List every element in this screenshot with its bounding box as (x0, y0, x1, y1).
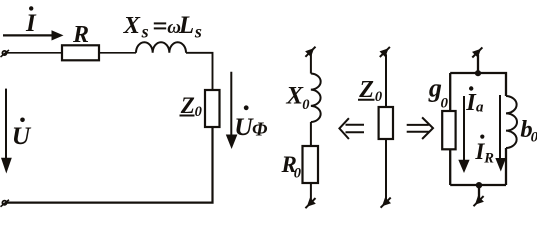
svg-text:0: 0 (531, 130, 537, 146)
svg-text:U: U (12, 121, 32, 150)
svg-text:L: L (178, 12, 194, 39)
svg-text:R: R (72, 22, 89, 48)
svg-text:0: 0 (302, 97, 309, 113)
svg-text:s: s (141, 22, 149, 42)
svg-text:0: 0 (195, 104, 202, 120)
svg-text:Z: Z (358, 77, 374, 103)
svg-text:0: 0 (375, 89, 382, 105)
svg-text:0: 0 (441, 96, 449, 112)
svg-text:I: I (25, 10, 37, 37)
svg-text:s: s (194, 22, 202, 42)
svg-text:Φ: Φ (252, 119, 268, 140)
svg-text:0: 0 (294, 165, 301, 181)
svg-text:Z: Z (180, 93, 195, 118)
svg-text:R: R (483, 150, 494, 166)
svg-text:X: X (123, 12, 141, 39)
svg-text:a: a (476, 100, 484, 116)
